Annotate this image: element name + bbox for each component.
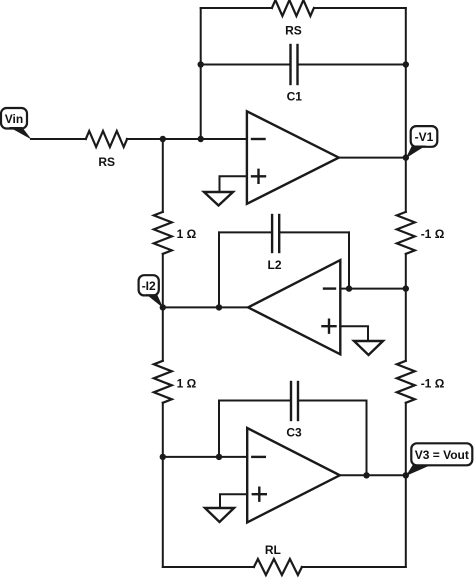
junction node C3 right vertical tap [363,472,369,478]
node Vin callout [1,108,32,140]
wire RS to op-amp U1 minus input [127,138,247,140]
wire Vin to resistor RS [31,138,86,140]
resistor RL [254,559,302,575]
wire U1 output to right rail [339,157,406,159]
svg-text:-1 Ω: -1 Ω [421,227,445,241]
resistor 1 ohm (lower left) [154,361,172,403]
junction node C3 left vertical tap [216,454,222,460]
node -I2 callout [139,275,164,308]
U1 minus symbol [252,138,265,140]
wire bottom left segment [163,566,254,568]
wire C3 loop right segment [299,400,366,402]
node -V1 callout [406,126,438,158]
svg-text:RS: RS [285,24,302,38]
svg-text:L2: L2 [267,258,281,272]
wire U2 plus input to ground [340,326,368,340]
U2 plus symbol [323,320,336,333]
svg-text:1 Ω: 1 Ω [177,377,197,391]
junction node -I2 at left rail [160,304,166,310]
wire right rail middle section [405,254,407,361]
wire U1 plus input to ground [220,176,247,191]
wire C1 row right segment [299,64,406,66]
wire C3 loop left segment [219,400,290,402]
wire U2 minus input to right rail [340,288,406,290]
capacitor L2 [272,215,279,252]
junction node C1 left tap [198,61,204,67]
wire right rail top section [405,8,407,212]
wire top feedback right segment [314,7,406,9]
junction node at Vin branch [160,136,166,142]
U3 minus symbol [252,456,264,458]
wire left branch rail x=201 top to minus node [200,8,202,139]
resistor -1 ohm (lower right) [397,361,415,403]
junction node at U1 minus branch [198,136,204,142]
ground (U3 non-inverting input) [205,508,234,522]
svg-text:RL: RL [265,543,281,557]
op-amp U2 (mirrored) [248,260,340,354]
wire top feedback left segment [201,7,272,9]
ground (U1 non-inverting input) [204,192,233,206]
wire L2 loop right vertical [348,232,350,288]
junction node U2 minus at right rail [403,285,409,291]
wire U3 plus input to ground [220,494,247,507]
junction node L2 left vertical tap [216,304,222,310]
resistor 1 ohm (upper left) [154,212,172,254]
svg-text:-V1: -V1 [415,130,434,144]
ground (U2 non-inverting input) [354,341,383,355]
svg-text:-I2: -I2 [142,279,156,293]
resistor RS (top feedback) [272,0,314,16]
wire left rail bottom section [162,403,164,567]
svg-text:C1: C1 [287,90,303,104]
svg-text:C3: C3 [286,426,302,440]
wire C1 row left segment [201,64,290,66]
svg-text:V3 = Vout: V3 = Vout [415,448,469,462]
wire U2 output to left rail [163,306,248,308]
wire left rail middle section [162,254,164,361]
junction node -V1 output [403,154,409,160]
svg-text:-1 Ω: -1 Ω [421,377,445,391]
wire bottom right segment [302,566,406,568]
wire right rail bottom section [405,403,407,567]
svg-text:RS: RS [98,155,115,169]
op-amp U1 [247,111,339,204]
U3 plus symbol [253,488,266,501]
wire C3 loop right vertical [366,401,368,476]
svg-text:Vin: Vin [5,112,23,126]
wire left rail node to resistor [162,139,164,212]
wire L2 loop right segment [280,231,349,233]
junction node L2 feedback tap [346,285,352,291]
wire U3 output to right rail [340,474,406,476]
U2 minus symbol [324,287,335,289]
resistor -1 ohm (upper right) [397,212,415,254]
junction node U3 minus at left rail [160,454,166,460]
wire left rail to op-amp U3 minus input [163,456,247,458]
capacitor C3 [291,382,298,420]
junction node Vout at right rail [403,472,409,478]
op-amp U3 [247,428,340,522]
U1 plus symbol [252,170,265,183]
node V3 = Vout callout [406,443,473,476]
wire C3 loop left vertical [218,401,220,457]
wire L2 loop left segment [219,231,271,233]
resistor RS (input) [86,131,127,147]
svg-text:1 Ω: 1 Ω [177,227,197,241]
wire L2 loop left vertical [218,232,220,307]
capacitor C1 [291,45,298,84]
junction node C1 right tap [403,61,409,67]
